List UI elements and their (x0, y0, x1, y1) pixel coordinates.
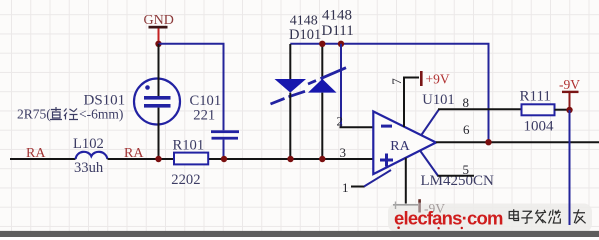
junction dot DS101/main (155, 156, 161, 162)
capacitor C101 (211, 130, 239, 139)
you (573, 209, 585, 223)
svg-text:R111: R111 (520, 88, 551, 104)
zi (521, 211, 533, 223)
svg-text:RA: RA (390, 139, 410, 154)
svg-text:+9V: +9V (426, 71, 450, 86)
diode D101 (271, 44, 307, 159)
svg-text:L102: L102 (73, 136, 104, 152)
op-amp U101 (373, 111, 436, 174)
pin 7 wire (404, 78, 419, 128)
label 2R75(直径<-6mm) (17, 107, 123, 122)
power symbol -9V (pin 4, faded under watermark) (393, 199, 445, 216)
svg-text:6: 6 (463, 122, 470, 137)
resistor R101 (174, 153, 208, 165)
wire: DS101 top lead (158, 44, 160, 96)
wire: -9V net down (569, 110, 571, 225)
svg-text:3: 3 (340, 145, 347, 160)
svg-text:33uh: 33uh (74, 160, 104, 176)
piezo transducer DS101 (134, 79, 180, 125)
svg-text:RA: RA (26, 146, 46, 161)
svg-text:1004: 1004 (524, 119, 555, 135)
svg-text:<-6mm): <-6mm) (79, 107, 123, 122)
svg-text:D111: D111 (322, 23, 354, 39)
shao (549, 210, 561, 224)
junction dot GND node (155, 41, 161, 47)
pin 1 stub (351, 186, 365, 188)
junction dot feedback/top (338, 41, 344, 47)
wire: R101 right lead to C101 junction (208, 158, 224, 160)
junction dot D111/top (319, 41, 325, 47)
bottom bar (0, 231, 599, 237)
svg-text:2R75(: 2R75( (17, 107, 51, 122)
wire: top feedback net (diodes to feedback) (290, 44, 488, 142)
svg-text:elecfans·com: elecfans·com (394, 208, 503, 229)
wire: R111 right lead (555, 109, 570, 111)
junction dot C101/main (221, 156, 227, 162)
pin 6 output wire (436, 141, 599, 143)
svg-text:R101: R101 (173, 138, 205, 154)
inductor L102 coil (76, 152, 108, 159)
svg-text:D101: D101 (289, 27, 321, 43)
wire: feedback to pin 2 (340, 44, 342, 128)
svg-text:1: 1 (342, 180, 349, 195)
junction dot feedback/pin6 (485, 139, 491, 145)
power symbol -9V (top right) (559, 77, 580, 108)
watermark text 电子发烧友 (drawn glyphs) (509, 209, 585, 223)
resistor R111 (522, 104, 555, 115)
pin 4 wire (405, 158, 407, 205)
wire: main net C101 junction to op-amp pin 3 (224, 158, 374, 160)
fa (535, 210, 546, 224)
svg-text:2: 2 (337, 114, 344, 129)
svg-text:221: 221 (193, 108, 215, 124)
wire: DS101 bottom lead (158, 108, 160, 159)
svg-text:4148: 4148 (322, 8, 352, 24)
svg-text:8: 8 (463, 95, 470, 110)
pin 8 wire (421, 109, 439, 135)
wire: C101 bottom lead (223, 140, 225, 159)
wire: main horizontal RA net, left segment (10, 158, 76, 160)
dian (509, 209, 518, 220)
diode D111 (308, 44, 346, 159)
svg-text:7: 7 (389, 78, 404, 85)
pin 5 stub (420, 151, 439, 177)
wire: GND node to C101 top (159, 44, 224, 131)
svg-text:U101: U101 (422, 92, 454, 108)
svg-text:GND: GND (144, 13, 174, 28)
wire: main horizontal RA net, L102 to R101 (108, 158, 175, 160)
junction dot R111/-9V net (566, 107, 572, 113)
power bar +9V (420, 71, 423, 86)
svg-text:2202: 2202 (171, 172, 200, 188)
junction dot D101/main (287, 156, 293, 162)
svg-text:-9V: -9V (559, 77, 580, 92)
svg-text:5: 5 (463, 162, 470, 177)
watermark panel (388, 204, 592, 233)
junction dot D111/main (319, 156, 325, 162)
